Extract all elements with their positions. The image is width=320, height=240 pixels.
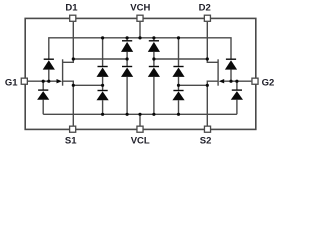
svg-text:D2: D2 [199, 3, 211, 14]
svg-text:VCL: VCL [131, 135, 150, 146]
svg-text:S2: S2 [200, 135, 212, 146]
svg-text:D1: D1 [65, 3, 78, 14]
svg-text:G2: G2 [262, 77, 275, 88]
svg-text:VCH: VCH [130, 3, 150, 14]
svg-text:G1: G1 [5, 77, 18, 88]
svg-text:S1: S1 [65, 135, 77, 146]
